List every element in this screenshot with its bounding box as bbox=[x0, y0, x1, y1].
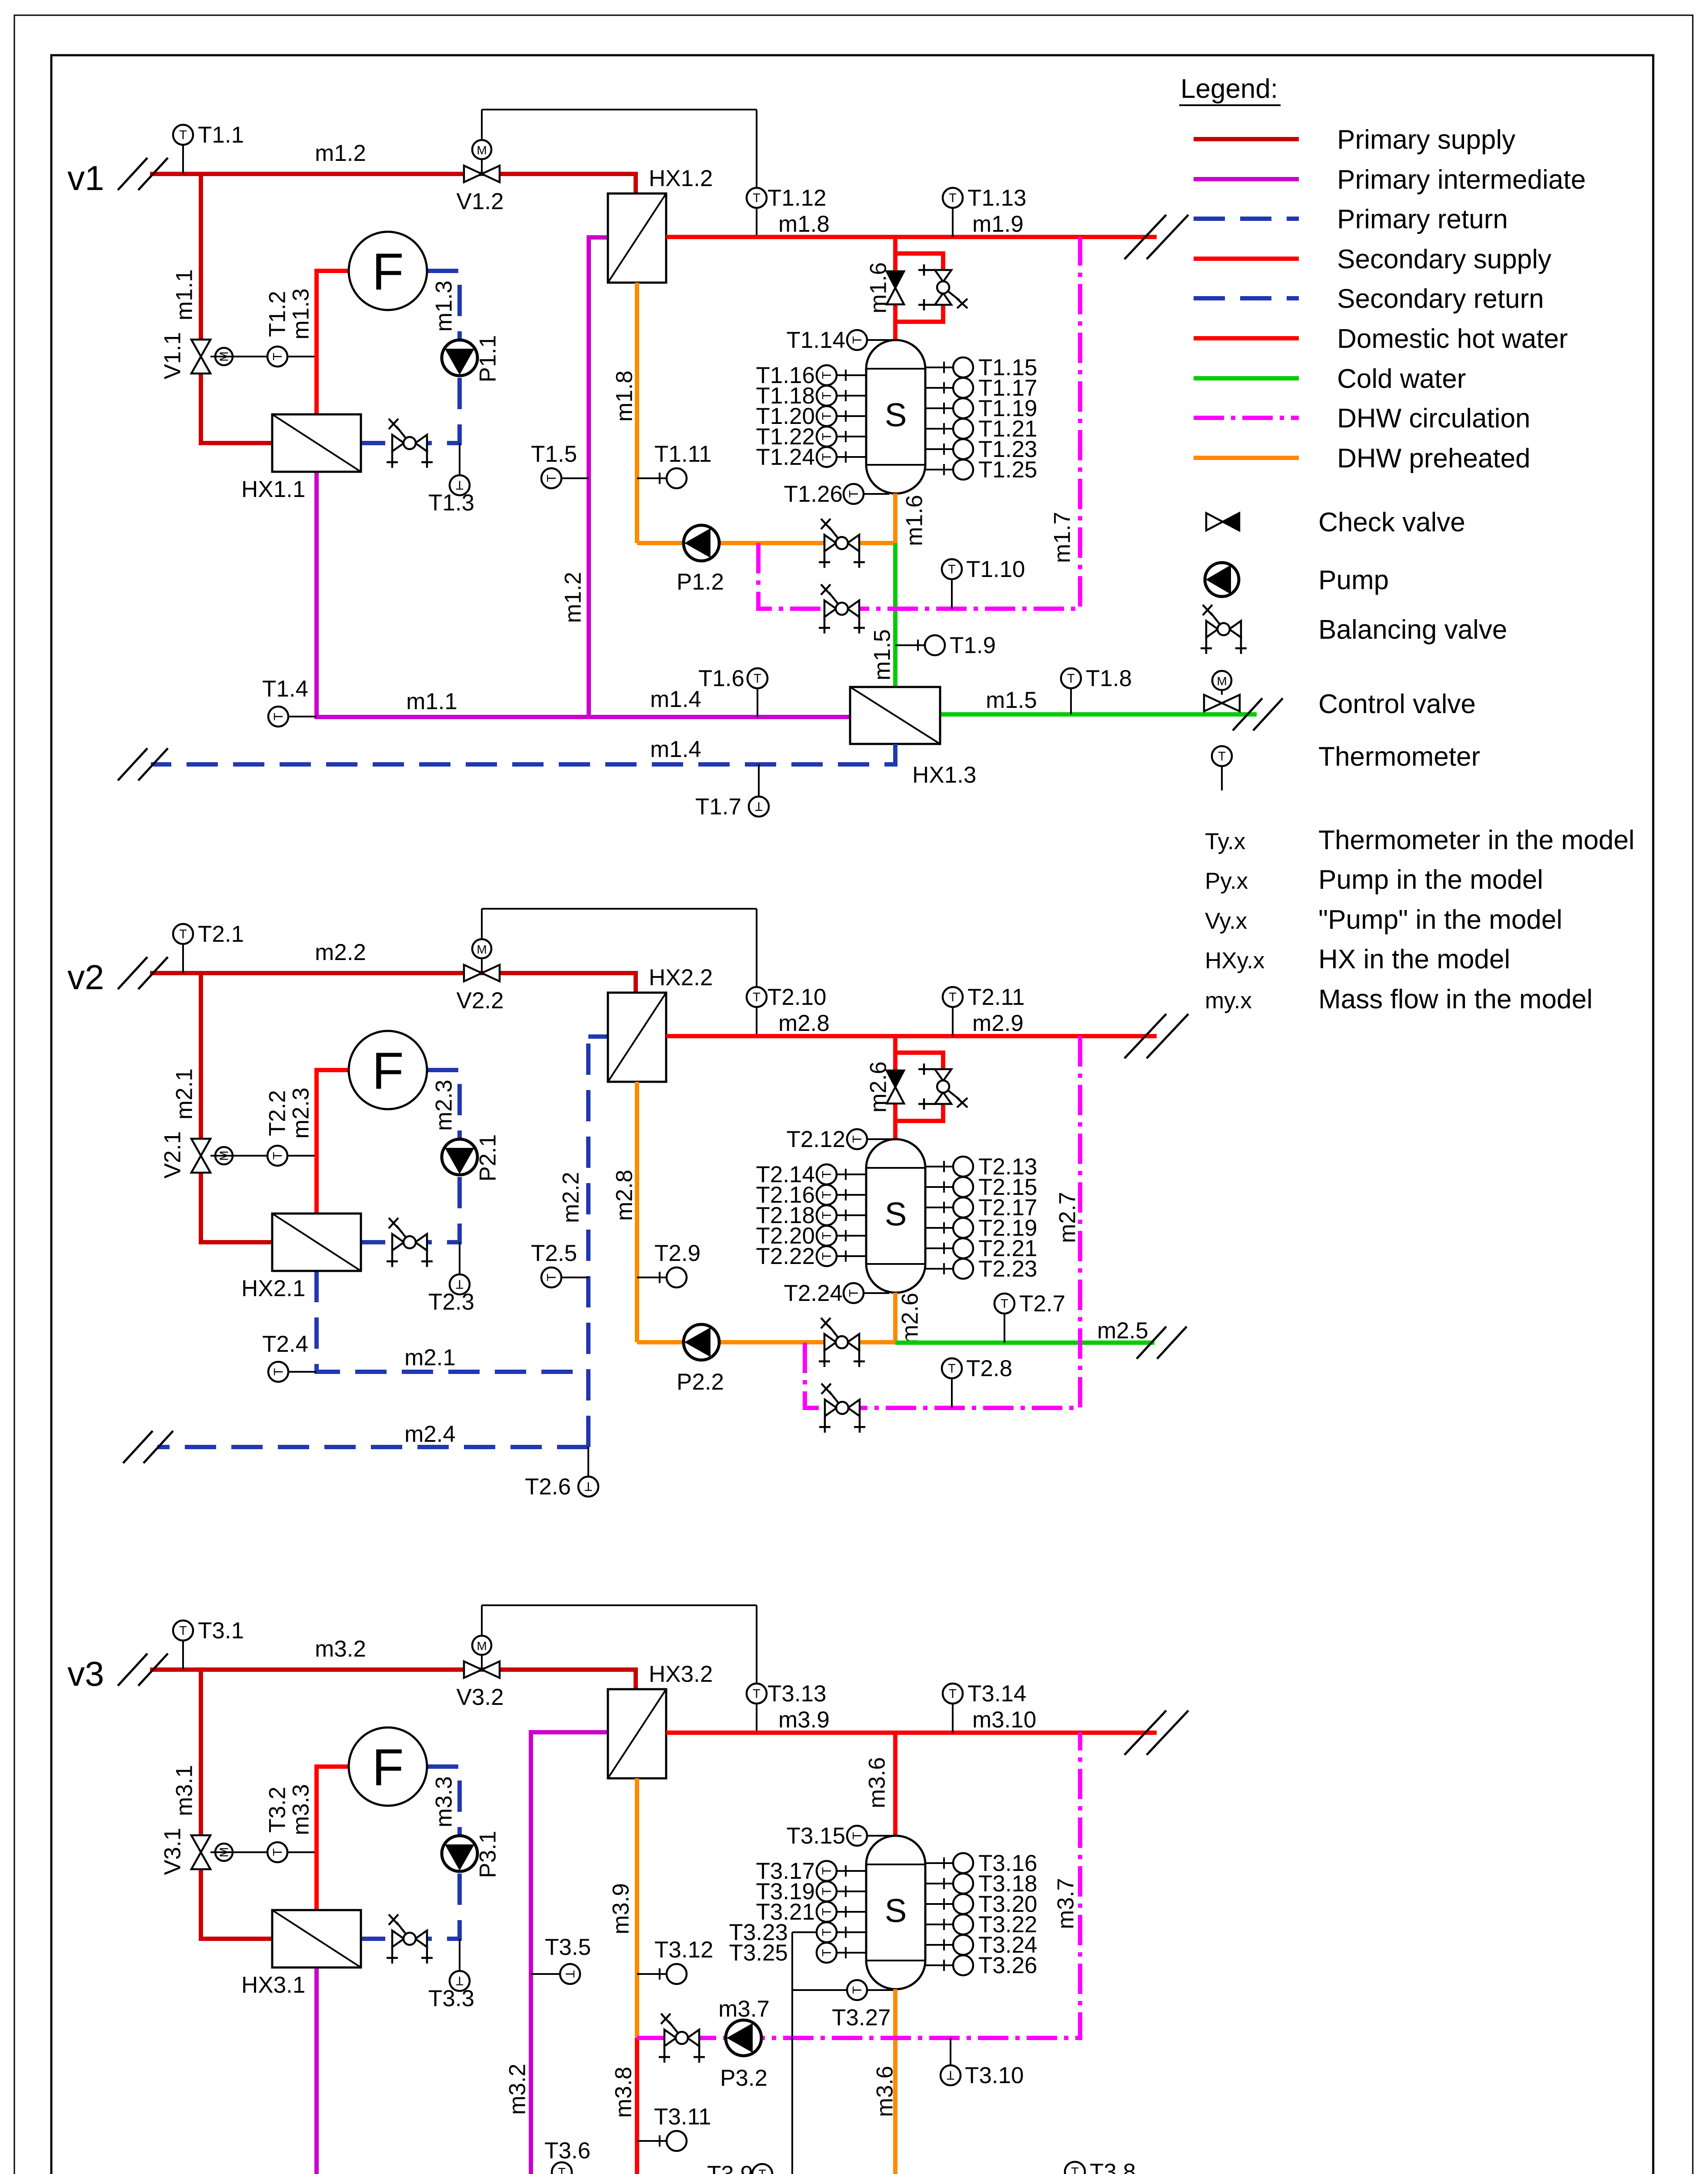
svg-text:T: T bbox=[851, 1986, 864, 1994]
svg-text:HX1.1: HX1.1 bbox=[241, 477, 305, 502]
svg-text:m1.3: m1.3 bbox=[431, 280, 457, 332]
svg-text:T: T bbox=[820, 1252, 834, 1260]
svg-text:T: T bbox=[820, 1949, 834, 1957]
svg-text:T3.27: T3.27 bbox=[832, 2005, 891, 2031]
svg-text:T3.8: T3.8 bbox=[1090, 2159, 1136, 2174]
svg-text:T: T bbox=[949, 1687, 957, 1701]
svg-text:T2.4: T2.4 bbox=[262, 1331, 308, 1357]
svg-text:S: S bbox=[885, 1196, 907, 1233]
svg-text:T3.1: T3.1 bbox=[198, 1618, 244, 1644]
svg-text:m1.5: m1.5 bbox=[870, 629, 895, 680]
svg-text:DHW preheated: DHW preheated bbox=[1337, 443, 1531, 473]
svg-text:M: M bbox=[1217, 674, 1227, 688]
svg-text:m2.6: m2.6 bbox=[897, 1293, 923, 1344]
svg-text:T: T bbox=[563, 1970, 577, 1978]
svg-text:m1.2: m1.2 bbox=[560, 572, 586, 623]
svg-text:T: T bbox=[851, 336, 864, 344]
svg-text:M: M bbox=[477, 943, 487, 956]
svg-text:T2.1: T2.1 bbox=[198, 921, 244, 947]
svg-text:HX1.2: HX1.2 bbox=[649, 166, 713, 191]
svg-text:HX1.3: HX1.3 bbox=[912, 762, 976, 788]
svg-text:T: T bbox=[948, 1362, 956, 1376]
svg-text:T: T bbox=[820, 433, 834, 440]
svg-text:T: T bbox=[272, 1368, 286, 1376]
svg-text:T2.11: T2.11 bbox=[967, 984, 1025, 1010]
svg-text:T1.2: T1.2 bbox=[265, 291, 290, 337]
svg-text:T1.4: T1.4 bbox=[262, 676, 308, 702]
svg-text:T: T bbox=[948, 563, 956, 577]
svg-text:m1.6: m1.6 bbox=[866, 262, 891, 313]
svg-text:m1.2: m1.2 bbox=[315, 140, 366, 166]
svg-text:T2.3: T2.3 bbox=[428, 1289, 474, 1315]
svg-text:T: T bbox=[179, 128, 187, 142]
svg-text:T: T bbox=[758, 2167, 766, 2174]
svg-text:"Pump" in the model: "Pump" in the model bbox=[1318, 905, 1562, 935]
svg-text:T: T bbox=[753, 1687, 761, 1701]
svg-text:T: T bbox=[545, 1274, 559, 1281]
svg-text:my.x: my.x bbox=[1205, 988, 1252, 1014]
svg-text:m3.6: m3.6 bbox=[872, 2066, 898, 2117]
svg-text:T: T bbox=[820, 1887, 834, 1895]
svg-text:T3.11: T3.11 bbox=[654, 2104, 711, 2130]
svg-text:T: T bbox=[820, 1211, 834, 1219]
svg-text:m1.8: m1.8 bbox=[612, 370, 637, 422]
svg-text:T: T bbox=[851, 1832, 864, 1840]
svg-text:m2.2: m2.2 bbox=[558, 1172, 584, 1223]
svg-text:F: F bbox=[372, 243, 404, 301]
svg-text:T1.14: T1.14 bbox=[786, 327, 845, 353]
svg-text:m3.7: m3.7 bbox=[1053, 1878, 1079, 1929]
svg-text:T2.6: T2.6 bbox=[525, 1474, 571, 1500]
svg-text:M: M bbox=[477, 1639, 487, 1653]
svg-text:m1.4: m1.4 bbox=[650, 737, 701, 762]
svg-text:T3.12: T3.12 bbox=[654, 1937, 714, 1963]
svg-text:T: T bbox=[753, 990, 761, 1004]
svg-text:P1.2: P1.2 bbox=[677, 569, 724, 595]
svg-text:T2.2: T2.2 bbox=[265, 1090, 290, 1136]
svg-text:T2.22: T2.22 bbox=[756, 1244, 815, 1269]
svg-text:Vy.x: Vy.x bbox=[1205, 908, 1247, 934]
svg-text:T2.24: T2.24 bbox=[784, 1280, 843, 1306]
svg-text:T: T bbox=[851, 1135, 864, 1143]
svg-text:v2: v2 bbox=[67, 958, 104, 997]
svg-text:T: T bbox=[755, 799, 763, 813]
svg-text:T: T bbox=[754, 672, 761, 686]
svg-text:m3.3: m3.3 bbox=[288, 1784, 314, 1835]
svg-text:m3.2: m3.2 bbox=[315, 1636, 366, 1662]
svg-text:M: M bbox=[477, 143, 487, 157]
svg-text:m1.1: m1.1 bbox=[406, 689, 457, 714]
svg-text:T1.25: T1.25 bbox=[978, 457, 1037, 483]
svg-text:DHW circulation: DHW circulation bbox=[1337, 403, 1530, 433]
svg-text:m2.1: m2.1 bbox=[172, 1068, 197, 1120]
svg-text:T2.12: T2.12 bbox=[786, 1127, 845, 1152]
svg-text:T3.26: T3.26 bbox=[978, 1953, 1037, 1978]
svg-text:Primary return: Primary return bbox=[1337, 204, 1508, 234]
svg-text:T: T bbox=[820, 392, 834, 400]
svg-text:m3.10: m3.10 bbox=[972, 1707, 1036, 1733]
svg-text:v3: v3 bbox=[67, 1654, 104, 1693]
svg-text:m2.3: m2.3 bbox=[431, 1080, 457, 1131]
svg-text:T3.5: T3.5 bbox=[545, 1934, 591, 1960]
svg-text:HX in the model: HX in the model bbox=[1318, 944, 1510, 974]
svg-text:T: T bbox=[1067, 672, 1075, 686]
svg-text:Py.x: Py.x bbox=[1205, 868, 1248, 894]
svg-text:P2.2: P2.2 bbox=[677, 1369, 724, 1395]
svg-text:T: T bbox=[1001, 1297, 1008, 1311]
svg-text:T2.5: T2.5 bbox=[531, 1240, 577, 1266]
svg-text:T1.7: T1.7 bbox=[695, 794, 741, 820]
svg-text:Legend:: Legend: bbox=[1181, 74, 1278, 104]
svg-text:m1.8: m1.8 bbox=[778, 211, 830, 237]
svg-text:T: T bbox=[820, 1867, 834, 1875]
svg-text:HX3.2: HX3.2 bbox=[649, 1661, 713, 1687]
svg-text:V3.2: V3.2 bbox=[456, 1684, 504, 1710]
svg-text:T1.8: T1.8 bbox=[1086, 666, 1132, 691]
svg-text:Domestic hot water: Domestic hot water bbox=[1337, 324, 1568, 354]
svg-text:T1.9: T1.9 bbox=[950, 633, 996, 658]
svg-text:T: T bbox=[820, 453, 834, 461]
svg-text:m3.7: m3.7 bbox=[718, 1996, 770, 2022]
svg-text:T3.6: T3.6 bbox=[544, 2138, 590, 2164]
svg-text:T1.6: T1.6 bbox=[698, 666, 744, 691]
svg-text:m2.7: m2.7 bbox=[1055, 1192, 1081, 1243]
svg-text:m3.2: m3.2 bbox=[505, 2064, 530, 2115]
svg-text:m2.4: m2.4 bbox=[404, 1421, 456, 1447]
svg-text:Ty.x: Ty.x bbox=[1205, 829, 1245, 854]
svg-text:Primary supply: Primary supply bbox=[1337, 125, 1515, 155]
svg-text:T: T bbox=[820, 371, 834, 379]
svg-text:m1.1: m1.1 bbox=[172, 269, 197, 320]
svg-text:T3.15: T3.15 bbox=[786, 1823, 845, 1849]
svg-text:Cold water: Cold water bbox=[1337, 364, 1466, 394]
svg-text:T1.26: T1.26 bbox=[784, 481, 843, 507]
svg-text:T3.3: T3.3 bbox=[428, 1986, 474, 2011]
svg-text:S: S bbox=[885, 1893, 907, 1930]
svg-text:Primary intermediate: Primary intermediate bbox=[1337, 165, 1586, 195]
svg-text:V3.1: V3.1 bbox=[160, 1827, 186, 1875]
svg-text:V1.2: V1.2 bbox=[456, 189, 504, 214]
svg-text:T: T bbox=[271, 353, 285, 360]
svg-text:F: F bbox=[372, 1738, 404, 1797]
svg-text:T: T bbox=[820, 1232, 834, 1240]
svg-text:m2.6: m2.6 bbox=[866, 1061, 891, 1113]
svg-text:Thermometer in the model: Thermometer in the model bbox=[1318, 825, 1635, 855]
svg-text:T: T bbox=[584, 1479, 592, 1493]
svg-text:T1.1: T1.1 bbox=[198, 122, 244, 148]
svg-text:T1.3: T1.3 bbox=[428, 490, 474, 516]
svg-text:V2.1: V2.1 bbox=[160, 1131, 186, 1178]
svg-text:m3.6: m3.6 bbox=[864, 1757, 890, 1808]
svg-text:Secondary supply: Secondary supply bbox=[1337, 244, 1551, 274]
svg-text:m1.6: m1.6 bbox=[902, 495, 927, 546]
svg-text:T: T bbox=[820, 1170, 834, 1178]
svg-text:v1: v1 bbox=[67, 159, 104, 197]
svg-text:T3.14: T3.14 bbox=[967, 1681, 1027, 1707]
svg-text:T: T bbox=[179, 1624, 187, 1638]
svg-text:m2.9: m2.9 bbox=[972, 1010, 1024, 1036]
svg-text:HX2.1: HX2.1 bbox=[241, 1276, 305, 1301]
svg-text:T1.11: T1.11 bbox=[654, 441, 712, 467]
svg-text:Control valve: Control valve bbox=[1318, 689, 1476, 719]
svg-text:T1.5: T1.5 bbox=[531, 441, 577, 467]
svg-text:m1.4: m1.4 bbox=[650, 687, 701, 712]
svg-text:T: T bbox=[179, 927, 187, 941]
svg-text:Secondary return: Secondary return bbox=[1337, 284, 1544, 314]
svg-text:T3.13: T3.13 bbox=[767, 1681, 827, 1707]
svg-text:T3.9: T3.9 bbox=[707, 2161, 753, 2174]
svg-text:T2.8: T2.8 bbox=[966, 1356, 1012, 1381]
svg-text:T: T bbox=[820, 412, 834, 420]
svg-text:m2.8: m2.8 bbox=[778, 1010, 830, 1036]
svg-text:V1.1: V1.1 bbox=[160, 332, 186, 379]
svg-text:T: T bbox=[753, 191, 761, 205]
svg-text:m1.3: m1.3 bbox=[288, 288, 314, 340]
svg-text:T2.23: T2.23 bbox=[978, 1256, 1037, 1282]
svg-text:T: T bbox=[947, 2068, 954, 2082]
svg-text:T1.10: T1.10 bbox=[966, 557, 1025, 582]
svg-text:T: T bbox=[949, 191, 957, 205]
svg-text:T1.13: T1.13 bbox=[967, 185, 1027, 211]
svg-text:Thermometer: Thermometer bbox=[1318, 742, 1480, 772]
svg-text:T1.24: T1.24 bbox=[756, 444, 815, 470]
svg-text:T3.2: T3.2 bbox=[265, 1787, 290, 1833]
svg-text:P1.1: P1.1 bbox=[475, 335, 501, 382]
svg-text:Mass flow in the model: Mass flow in the model bbox=[1318, 984, 1593, 1014]
svg-text:m2.3: m2.3 bbox=[288, 1087, 314, 1139]
svg-text:P3.2: P3.2 bbox=[720, 2065, 767, 2091]
svg-text:HXy.x: HXy.x bbox=[1205, 948, 1264, 974]
svg-text:T: T bbox=[1071, 2165, 1079, 2174]
svg-text:m2.1: m2.1 bbox=[404, 1345, 456, 1370]
svg-text:m3.9: m3.9 bbox=[778, 1707, 830, 1733]
svg-text:T: T bbox=[272, 713, 286, 720]
svg-text:m3.1: m3.1 bbox=[172, 1765, 197, 1816]
svg-text:m2.8: m2.8 bbox=[612, 1170, 637, 1221]
svg-text:T: T bbox=[271, 1152, 285, 1160]
svg-text:T: T bbox=[545, 474, 559, 482]
svg-text:T: T bbox=[820, 1191, 834, 1199]
svg-text:T: T bbox=[847, 490, 861, 498]
svg-text:m1.9: m1.9 bbox=[972, 211, 1024, 237]
svg-text:m3.9: m3.9 bbox=[608, 1883, 634, 1934]
svg-text:HX3.1: HX3.1 bbox=[241, 1972, 305, 1998]
svg-text:T: T bbox=[1218, 750, 1226, 764]
svg-text:m3.3: m3.3 bbox=[431, 1776, 457, 1827]
svg-text:P2.1: P2.1 bbox=[475, 1134, 501, 1181]
svg-text:Check valve: Check valve bbox=[1318, 507, 1465, 537]
svg-text:HX2.2: HX2.2 bbox=[649, 965, 713, 990]
svg-text:T3.10: T3.10 bbox=[965, 2063, 1024, 2088]
svg-text:T: T bbox=[847, 1289, 861, 1297]
svg-text:T1.12: T1.12 bbox=[767, 185, 827, 211]
svg-text:T: T bbox=[820, 1928, 834, 1936]
svg-text:T: T bbox=[820, 1908, 834, 1916]
svg-text:F: F bbox=[372, 1042, 404, 1100]
svg-text:m2.2: m2.2 bbox=[315, 940, 366, 965]
svg-text:Pump: Pump bbox=[1318, 565, 1389, 595]
svg-text:V2.2: V2.2 bbox=[456, 988, 504, 1014]
svg-text:Pump in the model: Pump in the model bbox=[1318, 865, 1543, 895]
svg-text:m3.8: m3.8 bbox=[611, 2067, 637, 2118]
svg-text:T: T bbox=[271, 1848, 285, 1856]
svg-text:T2.7: T2.7 bbox=[1019, 1291, 1065, 1317]
svg-text:Balancing valve: Balancing valve bbox=[1318, 615, 1507, 645]
svg-text:m2.5: m2.5 bbox=[1097, 1318, 1148, 1344]
svg-text:S: S bbox=[885, 397, 907, 434]
svg-text:P3.1: P3.1 bbox=[475, 1831, 501, 1878]
svg-text:T2.10: T2.10 bbox=[767, 984, 827, 1010]
svg-text:m1.7: m1.7 bbox=[1050, 512, 1075, 563]
svg-text:m1.5: m1.5 bbox=[986, 687, 1037, 713]
svg-text:T3.25: T3.25 bbox=[729, 1940, 788, 1966]
svg-text:T: T bbox=[949, 990, 957, 1004]
svg-text:T2.9: T2.9 bbox=[654, 1240, 701, 1266]
svg-text:T: T bbox=[558, 2166, 566, 2174]
svg-text:T3.4: T3.4 bbox=[261, 2172, 307, 2174]
